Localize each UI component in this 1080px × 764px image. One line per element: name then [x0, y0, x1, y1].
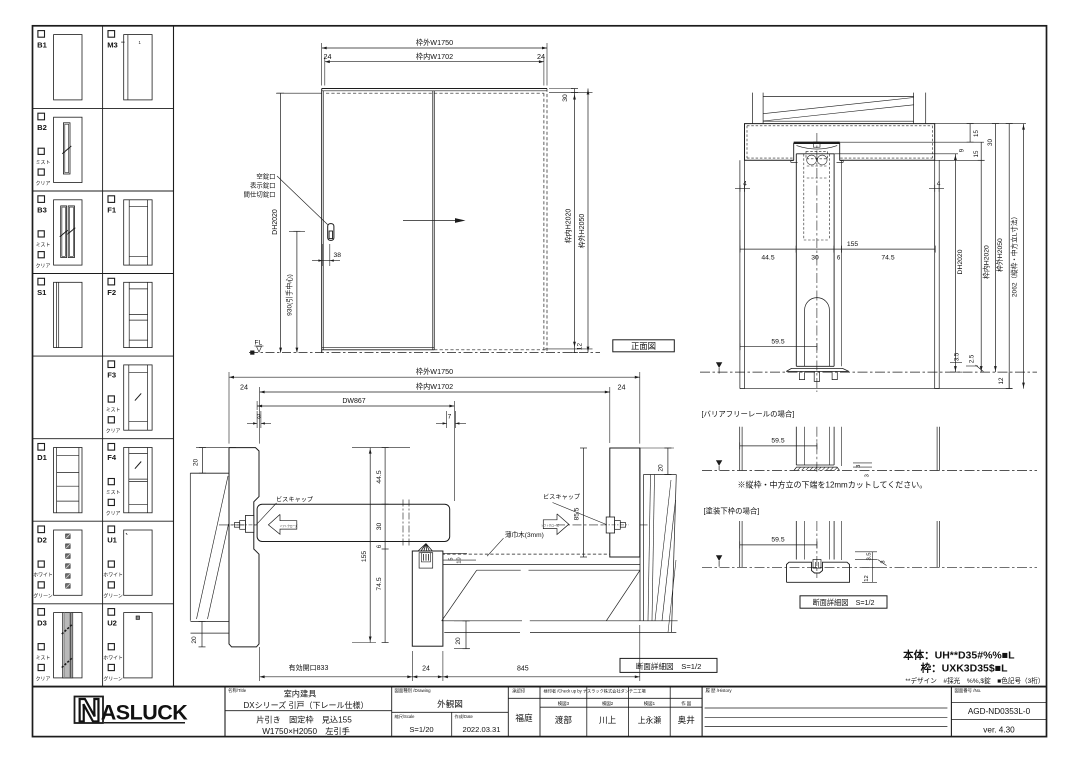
svg-text:クリア: クリア: [36, 181, 51, 187]
svg-text:930(引手中心): 930(引手中心): [285, 274, 294, 316]
svg-text:正面図: 正面図: [631, 341, 656, 351]
svg-text:外観図: 外観図: [437, 698, 463, 709]
svg-text:3.5: 3.5: [867, 552, 873, 560]
plan dim W1750: [228, 372, 230, 444]
svg-text:ホワイト: ホワイト: [103, 573, 123, 579]
plan bottom dims: [259, 647, 261, 681]
approval cells: [508, 697, 540, 699]
soft-close arrow right: [543, 514, 569, 535]
post top detail: [419, 553, 433, 568]
cell B1: [38, 31, 45, 38]
dim 30 head: [549, 88, 574, 90]
svg-text:ビスキャップ: ビスキャップ: [543, 493, 581, 501]
cell F2: [108, 278, 115, 285]
svg-text:6: 6: [376, 544, 383, 548]
svg-text:ソフトクローズ: ソフトクローズ: [541, 523, 559, 527]
svg-text:B3: B3: [37, 206, 47, 215]
svg-text:3: 3: [881, 560, 887, 563]
d3 dims 3.5/3/12: [855, 551, 877, 553]
svg-text:本体：UH**D35#%%■L: 本体：UH**D35#%%■L: [903, 649, 1015, 662]
svg-text:D2: D2: [37, 536, 47, 545]
svg-text:断面詳細図 S=1/2: 断面詳細図 S=1/2: [636, 661, 702, 671]
svg-text:S1: S1: [37, 288, 47, 297]
svg-text:グリーン: グリーン: [103, 593, 122, 600]
label 正面図: [613, 340, 675, 352]
svg-text:74.5: 74.5: [881, 255, 894, 262]
svg-text:24: 24: [618, 383, 626, 392]
dim 枠内H2020: [574, 92, 576, 349]
cell S1: [38, 278, 45, 285]
d3 dim 59.5: [740, 544, 817, 546]
svg-text:3: 3: [257, 414, 261, 421]
svg-text:24: 24: [240, 383, 248, 392]
svg-text:20: 20: [658, 464, 665, 472]
svg-text:15: 15: [973, 150, 980, 157]
d3 FL: [702, 566, 1037, 568]
plan dim W1702: [259, 387, 261, 444]
svg-text:30: 30: [811, 255, 819, 262]
svg-text:155: 155: [847, 241, 859, 248]
bottom 20 dim: [454, 620, 470, 622]
svg-text:6: 6: [837, 255, 841, 262]
svg-text:24: 24: [324, 52, 332, 61]
svg-text:155: 155: [361, 551, 368, 563]
svg-text:川上: 川上: [599, 715, 617, 725]
svg-text:20: 20: [455, 637, 462, 645]
d3 sill block: [787, 562, 850, 582]
svg-text:D1: D1: [37, 453, 47, 462]
svg-text:福庭: 福庭: [515, 712, 533, 723]
svg-text:クリア: クリア: [106, 429, 121, 435]
svg-text:クリア: クリア: [36, 676, 51, 682]
cell M3: [108, 31, 115, 38]
svg-text:12: 12: [577, 343, 584, 351]
svg-text:12: 12: [998, 377, 1005, 384]
dim 59.5: [739, 320, 741, 350]
svg-text:※縦枠・中方立の下端を12mmカットしてください。: ※縦枠・中方立の下端を12mmカットしてください。: [738, 479, 928, 489]
svg-text:44.5: 44.5: [376, 470, 383, 483]
svg-text:**デザイン #採光 %%,$錠 ■色記号（3桁）: **デザイン #採光 %%,$錠 ■色記号（3桁）: [905, 676, 1044, 685]
track groove: [793, 143, 795, 161]
dim 38: [321, 244, 323, 266]
plan dim DW867: [256, 401, 258, 410]
door slab (section): [795, 154, 797, 366]
plan left wall: [190, 472, 229, 474]
svg-text:FL: FL: [255, 340, 263, 347]
dim 85.5: [583, 448, 585, 557]
header (上枠): [745, 124, 935, 161]
cell B2: [38, 113, 45, 120]
svg-text:7: 7: [448, 414, 452, 421]
right-hand vertical dim stack: [834, 153, 958, 155]
small dims 3.5 / 2.5: [950, 362, 962, 364]
svg-text:3: 3: [856, 465, 862, 468]
svg-text:20: 20: [193, 459, 200, 467]
svg-text:検印者 /Check up by ナスラック株式会社ダンテ二: 検印者 /Check up by ナスラック株式会社ダンテ二工場: [544, 688, 647, 695]
svg-text:12: 12: [864, 575, 870, 581]
svg-text:F1: F1: [107, 206, 117, 215]
svg-text:枠内W1702: 枠内W1702: [416, 52, 453, 61]
dim 4 right: [929, 187, 944, 189]
left option table grid: [33, 107, 174, 109]
svg-text:[バリアフリーレールの場合]: [バリアフリーレールの場合]: [702, 410, 795, 419]
svg-text:枠：UXK3D35$■L: 枠：UXK3D35$■L: [921, 662, 1008, 675]
svg-text:2.5: 2.5: [970, 354, 976, 363]
plan dim 3: [256, 411, 258, 428]
FL line: [249, 352, 600, 354]
plan vertical dims 44.5/30/6/74.5/155: [369, 448, 371, 643]
elevation dim W1702: [324, 57, 326, 86]
dim 930 handle center: [296, 231, 298, 352]
dim 4 left: [735, 187, 750, 189]
elevation handle: [328, 224, 334, 241]
svg-text:U2: U2: [107, 618, 117, 627]
svg-text:9: 9: [959, 148, 966, 152]
svg-text:4: 4: [937, 180, 941, 187]
svg-text:4: 4: [743, 180, 747, 187]
cell B3: [38, 196, 45, 203]
svg-text:38: 38: [334, 252, 342, 259]
svg-text:[塗装下枠の場合]: [塗装下枠の場合]: [704, 507, 760, 516]
d2 datum flag: [716, 460, 722, 466]
studs above header: [752, 93, 754, 124]
svg-text:F3: F3: [107, 371, 116, 380]
svg-text:断面詳細図 S=1/2: 断面詳細図 S=1/2: [812, 598, 874, 607]
dim 12: [574, 349, 576, 353]
svg-text:30: 30: [987, 139, 994, 146]
svg-text:片引き 固定枠 見込155: 片引き 固定枠 見込155: [256, 715, 352, 725]
door guide groove arch: [804, 310, 806, 366]
svg-text:枠外H2050: 枠外H2050: [577, 214, 586, 249]
svg-text:B1: B1: [37, 40, 47, 49]
svg-text:ホワイト: ホワイト: [33, 573, 53, 579]
svg-text:U1: U1: [107, 536, 117, 545]
d2 FL: [702, 470, 1037, 472]
svg-text:縮尺/Scale: 縮尺/Scale: [395, 713, 416, 720]
dims 5/10 under slab: [443, 552, 467, 554]
plan latch screw left: [245, 516, 253, 533]
right jamb (plan): [610, 448, 640, 557]
svg-text:ver. 4.30: ver. 4.30: [983, 726, 1015, 735]
svg-text:10: 10: [456, 557, 462, 563]
plan right wall: [639, 448, 641, 621]
svg-text:奥井: 奥井: [678, 714, 696, 725]
svg-text:DXシリーズ 引戸（下レール仕様）: DXシリーズ 引戸（下レール仕様）: [244, 700, 369, 710]
plan left 20 dim: [201, 448, 203, 474]
cell U2: [108, 609, 115, 616]
svg-text:室内建具: 室内建具: [284, 689, 317, 699]
svg-text:名称/Title: 名称/Title: [228, 687, 247, 694]
svg-text:74.5: 74.5: [376, 577, 383, 590]
svg-text:枠内W1702: 枠内W1702: [416, 382, 453, 391]
svg-text:クリア: クリア: [106, 511, 121, 517]
elevation pocket (dashed): [543, 93, 545, 352]
svg-text:W1750×H2050 左引手: W1750×H2050 左引手: [262, 726, 350, 736]
cell D3: [38, 609, 45, 616]
svg-text:30: 30: [376, 523, 383, 531]
svg-text:枠内H2020: 枠内H2020: [564, 209, 573, 244]
svg-text:ASLUCK: ASLUCK: [101, 701, 189, 725]
plan dim 7: [446, 411, 448, 428]
soft-close arrow left: [268, 514, 296, 534]
svg-text:S=1/20: S=1/20: [409, 725, 433, 734]
svg-text:空錠口: 空錠口: [256, 171, 275, 180]
svg-text:DH2020: DH2020: [272, 209, 279, 235]
svg-text:59.5: 59.5: [771, 438, 784, 445]
thin skirting dashed line: [442, 553, 640, 555]
svg-text:ホワイト: ホワイト: [103, 655, 123, 661]
svg-text:ミスト: ミスト: [106, 408, 121, 414]
elevation frame head: [322, 88, 547, 90]
cell F3: [108, 361, 115, 368]
svg-text:枠外W1750: 枠外W1750: [416, 38, 453, 47]
dim 枠外H2050: [587, 89, 589, 353]
plan centreline: [219, 524, 311, 526]
d2 dim 59.5: [740, 445, 817, 447]
svg-text:20: 20: [191, 636, 198, 644]
leader to handle: [277, 176, 328, 225]
plan left jamb: [229, 448, 259, 647]
cell F4: [108, 444, 115, 451]
svg-text:間仕切錠口: 間仕切錠口: [244, 190, 276, 199]
svg-text:D3: D3: [37, 618, 47, 627]
dim DH2020: [280, 93, 282, 352]
elevation dim W1750 top: [321, 43, 323, 86]
svg-text:薄巾木(3mm): 薄巾木(3mm): [505, 530, 544, 539]
plan right 20 dim: [667, 448, 669, 475]
svg-text:枠外W1750: 枠外W1750: [416, 367, 453, 376]
hanger rollers (hidden): [807, 155, 817, 165]
elevation slide arrow: [403, 220, 461, 222]
centreline: [816, 133, 818, 392]
svg-text:DH2020: DH2020: [957, 249, 964, 274]
svg-text:検図2: 検図2: [602, 700, 614, 707]
pocket face line: [841, 160, 843, 366]
wall band lower: [477, 569, 521, 571]
svg-text:2062（縦枠・中方立L寸法）: 2062（縦枠・中方立L寸法）: [1010, 213, 1019, 297]
svg-text:DW867: DW867: [342, 398, 365, 405]
svg-text:59.5: 59.5: [771, 339, 784, 346]
drawing-type cell: [392, 711, 509, 713]
svg-text:作 図: 作 図: [681, 700, 692, 707]
svg-text:B2: B2: [37, 123, 47, 132]
jambs: [739, 160, 741, 388]
svg-text:F4: F4: [107, 453, 117, 462]
svg-text:F2: F2: [107, 288, 116, 297]
label 断面詳細図 (details): [800, 596, 887, 608]
title cell: [225, 710, 392, 712]
svg-text:M3: M3: [107, 40, 118, 49]
svg-text:作成/Date: 作成/Date: [455, 713, 474, 720]
svg-text:ミスト: ミスト: [36, 160, 51, 166]
svg-text:有効開口833: 有効開口833: [289, 663, 329, 672]
svg-text:AGD-ND0353L-0: AGD-ND0353L-0: [968, 707, 1031, 716]
label 断面詳細図 (plan): [620, 658, 717, 672]
svg-text:845: 845: [517, 666, 529, 673]
screw-cap right: [606, 517, 614, 533]
svg-text:図面番号 /No.: 図面番号 /No.: [955, 687, 982, 694]
svg-text:クリア: クリア: [36, 264, 51, 270]
bottom rail (barrier-free): [786, 368, 849, 371]
post guide fan: [418, 544, 426, 551]
svg-text:5: 5: [448, 557, 454, 560]
svg-text:ソフトクローズ: ソフトクローズ: [279, 524, 297, 528]
FL line (main section): [700, 371, 1037, 373]
svg-text:30: 30: [562, 94, 569, 102]
cell F1: [108, 196, 115, 203]
d3 datum flag: [716, 555, 722, 561]
svg-text:検図3: 検図3: [558, 700, 570, 707]
d2 rail: [794, 467, 840, 470]
svg-text:15: 15: [973, 130, 980, 137]
svg-text:59.5: 59.5: [771, 537, 784, 544]
svg-text:ミスト: ミスト: [36, 655, 51, 661]
plan door slab: [257, 504, 450, 541]
svg-text:3: 3: [865, 474, 871, 477]
elevation door panel: [321, 89, 323, 353]
svg-text:渡部: 渡部: [555, 714, 573, 725]
svg-text:ミスト: ミスト: [106, 490, 121, 496]
svg-text:検図1: 検図1: [644, 700, 656, 707]
svg-text:図面種別 /Drawing: 図面種別 /Drawing: [395, 687, 432, 694]
svg-text:ビスキャップ: ビスキャップ: [276, 496, 314, 504]
svg-text:24: 24: [422, 666, 430, 673]
cell D2: [38, 526, 45, 533]
title block frame: [33, 686, 1047, 688]
svg-text:2022.03.31: 2022.03.31: [462, 725, 500, 734]
svg-text:枠内H2020: 枠内H2020: [982, 245, 991, 279]
svg-text:枠外H2050: 枠外H2050: [995, 238, 1004, 272]
svg-text:グリーン: グリーン: [33, 593, 52, 600]
cell U1: [108, 526, 115, 533]
svg-text:24: 24: [537, 52, 545, 61]
centre post (中方立): [412, 551, 443, 646]
svg-text:ミスト: ミスト: [36, 243, 51, 249]
cell D1: [38, 444, 45, 451]
svg-text:44.5: 44.5: [761, 255, 774, 262]
svg-text:表示錠口: 表示錠口: [250, 181, 276, 190]
datum flag (main): [716, 362, 722, 368]
svg-text:85.5: 85.5: [574, 507, 581, 520]
svg-text:グリーン: グリーン: [103, 675, 122, 682]
dim row 44.5/30/6/74.5: [739, 230, 741, 252]
d2 dims 3/3: [853, 462, 872, 464]
svg-text:上永瀬: 上永瀬: [638, 715, 662, 725]
svg-text:承認印: 承認印: [512, 688, 526, 695]
